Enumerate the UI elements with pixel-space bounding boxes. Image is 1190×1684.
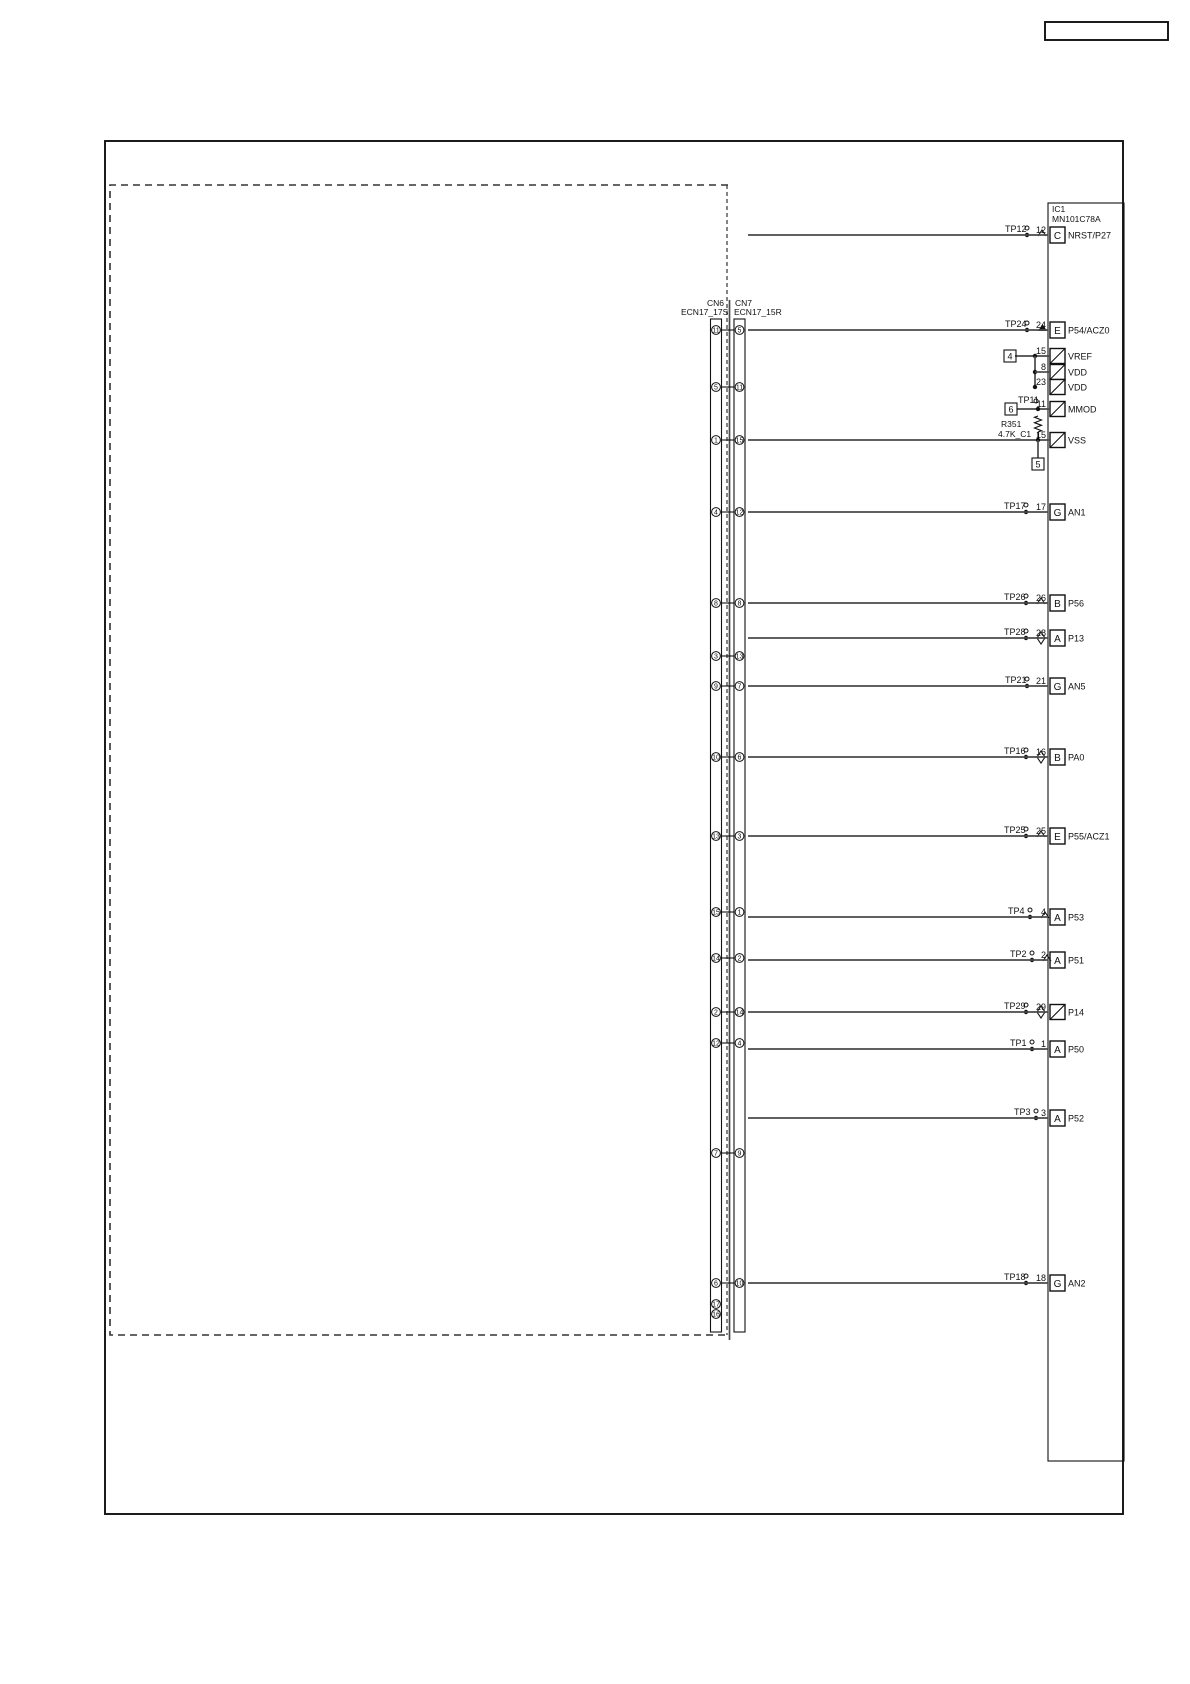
svg-text:15: 15 xyxy=(736,438,744,445)
svg-text:R351: R351 xyxy=(1001,419,1022,429)
svg-text:G: G xyxy=(1054,1279,1062,1290)
test point TP21 xyxy=(1025,677,1029,681)
wire VDD8 stub xyxy=(1034,356,1036,387)
svg-text:13: 13 xyxy=(712,834,720,841)
svg-text:TP3: TP3 xyxy=(1014,1107,1031,1117)
svg-text:21: 21 xyxy=(1036,676,1046,686)
IC1 pin 17 AN1 xyxy=(1050,504,1065,520)
CN6 pin 14 / CN7 pin 2 xyxy=(712,954,721,963)
IC1 pin 3 P52 xyxy=(1050,1110,1065,1126)
svg-text:A: A xyxy=(1054,1045,1061,1056)
title block box top right xyxy=(1045,22,1168,40)
CN6 pin 9 / CN7 pin 7 xyxy=(712,682,721,691)
svg-text:P52: P52 xyxy=(1068,1114,1084,1124)
svg-text:TP4: TP4 xyxy=(1008,906,1025,916)
connector CN6 ECN17-17S xyxy=(711,319,722,1332)
svg-text:3: 3 xyxy=(738,834,742,841)
wire harness between CN6 CN7 xyxy=(729,300,731,1340)
svg-text:13: 13 xyxy=(736,654,744,661)
svg-text:A: A xyxy=(1054,634,1061,645)
svg-text:4.7K_C1: 4.7K_C1 xyxy=(998,429,1031,439)
square ref 6 xyxy=(1005,403,1017,415)
IC1 pin 29 P14 xyxy=(1050,1005,1065,1020)
svg-text:P14: P14 xyxy=(1068,1008,1084,1018)
inner dashed boundary xyxy=(110,185,728,1335)
svg-text:8: 8 xyxy=(1041,362,1046,372)
svg-text:AN1: AN1 xyxy=(1068,508,1086,518)
IC1 pin 24 P54/ACZ0 xyxy=(1050,322,1065,338)
svg-text:P13: P13 xyxy=(1068,634,1084,644)
svg-text:8: 8 xyxy=(738,601,742,608)
test point TP29 xyxy=(1024,1003,1028,1007)
wire MMOD row xyxy=(1017,408,1050,410)
svg-text:4: 4 xyxy=(714,510,718,517)
test point TP3 xyxy=(1034,1109,1038,1113)
CN6 pin 5 / CN7 pin 11 xyxy=(712,383,721,392)
square ref 5 xyxy=(1037,440,1039,458)
svg-text:P54/ACZ0: P54/ACZ0 xyxy=(1068,326,1110,336)
svg-text:5: 5 xyxy=(1035,460,1040,470)
IC1 pin 15 VREF xyxy=(1050,349,1065,364)
IC1 pin 25 P55/ACZ1 xyxy=(1050,828,1065,844)
svg-text:MMOD: MMOD xyxy=(1068,405,1097,415)
svg-text:TP24: TP24 xyxy=(1005,319,1027,329)
svg-text:E: E xyxy=(1054,326,1061,337)
test point TP12 xyxy=(1025,226,1029,230)
svg-text:TP1: TP1 xyxy=(1010,1038,1027,1048)
CN6 pin 3 / CN7 pin 13 xyxy=(712,652,721,661)
svg-text:AN2: AN2 xyxy=(1068,1279,1086,1289)
CN6 pin 15 / CN7 pin 1 xyxy=(712,908,721,917)
svg-text:6: 6 xyxy=(714,1281,718,1288)
test point TP16 xyxy=(1024,748,1028,752)
svg-text:3: 3 xyxy=(1041,1108,1046,1118)
svg-text:4: 4 xyxy=(1007,352,1012,362)
svg-text:TP11: TP11 xyxy=(1018,395,1039,405)
test point TP17 xyxy=(1024,503,1028,507)
svg-text:NRST/P27: NRST/P27 xyxy=(1068,231,1111,241)
CN6 pin 1 / CN7 pin 15 xyxy=(712,436,721,445)
svg-text:5: 5 xyxy=(738,328,742,335)
svg-text:15: 15 xyxy=(1036,346,1046,356)
svg-text:E: E xyxy=(1054,832,1061,843)
svg-text:7: 7 xyxy=(738,684,742,691)
svg-text:11: 11 xyxy=(736,385,743,392)
svg-text:17: 17 xyxy=(1036,502,1046,512)
svg-text:7: 7 xyxy=(714,1151,718,1158)
CN6 pin 4 / CN7 pin 12 xyxy=(712,508,721,517)
test point TP2 xyxy=(1030,951,1034,955)
svg-text:MN101C78A: MN101C78A xyxy=(1052,214,1101,224)
IC1 pin 2 P51 xyxy=(1050,952,1065,968)
svg-text:P50: P50 xyxy=(1068,1045,1084,1055)
svg-text:IC1: IC1 xyxy=(1052,204,1066,214)
test point TP28 xyxy=(1024,629,1028,633)
svg-text:VSS: VSS xyxy=(1068,436,1086,446)
wire VREF row xyxy=(1015,355,1050,357)
svg-text:VDD: VDD xyxy=(1068,383,1088,393)
svg-text:VREF: VREF xyxy=(1068,352,1093,362)
svg-text:P55/ACZ1: P55/ACZ1 xyxy=(1068,832,1110,842)
CN6 pin 16 xyxy=(712,1310,721,1319)
CN6 pin 8 / CN7 pin 8 xyxy=(712,599,721,608)
svg-text:6: 6 xyxy=(1008,405,1013,415)
svg-text:1: 1 xyxy=(738,910,742,917)
svg-text:A: A xyxy=(1054,1114,1061,1125)
IC1 pin 23 VDD xyxy=(1050,380,1065,395)
CN6 pin 12 / CN7 pin 4 xyxy=(712,1039,721,1048)
svg-text:VDD: VDD xyxy=(1068,368,1088,378)
CN6 pin 7 / CN7 pin 9 xyxy=(712,1149,721,1158)
CN6 pin 6 / CN7 pin 10 xyxy=(712,1279,721,1288)
wire rows CN7 to IC1 xyxy=(748,234,1048,236)
svg-text:A: A xyxy=(1054,913,1061,924)
svg-text:6: 6 xyxy=(738,755,742,762)
svg-text:P51: P51 xyxy=(1068,956,1084,966)
svg-text:9: 9 xyxy=(714,684,718,691)
svg-text:TP29: TP29 xyxy=(1004,1001,1026,1011)
svg-text:10: 10 xyxy=(736,1281,744,1288)
svg-text:TP18: TP18 xyxy=(1004,1272,1026,1282)
svg-text:G: G xyxy=(1054,682,1062,693)
svg-text:TP17: TP17 xyxy=(1004,501,1026,511)
svg-text:2: 2 xyxy=(714,1010,718,1017)
svg-text:14: 14 xyxy=(712,956,720,963)
test point TP24 xyxy=(1025,321,1029,325)
IC1 pin 4 P53 xyxy=(1050,909,1065,925)
svg-text:P56: P56 xyxy=(1068,599,1084,609)
svg-text:5: 5 xyxy=(714,385,718,392)
IC1 pin 12 NRST/P27 xyxy=(1050,227,1065,243)
svg-text:15: 15 xyxy=(712,910,720,917)
test point TP1 xyxy=(1030,1040,1034,1044)
svg-text:14: 14 xyxy=(736,1010,744,1017)
svg-text:TP28: TP28 xyxy=(1004,627,1026,637)
svg-text:18: 18 xyxy=(1036,1273,1046,1283)
svg-text:8: 8 xyxy=(714,601,718,608)
IC1 pin 28 P13 xyxy=(1050,630,1065,646)
svg-text:4: 4 xyxy=(738,1041,742,1048)
IC1 pin 26 P56 xyxy=(1050,595,1065,611)
frame: outer border xyxy=(105,141,1123,1514)
IC1 pin 1 P50 xyxy=(1050,1041,1065,1057)
IC1 pin 11 MMOD xyxy=(1050,402,1065,417)
test point TP26 xyxy=(1024,594,1028,598)
resistor R351 4.7K xyxy=(1035,416,1042,432)
CN6 pin 11 / CN7 pin 5 xyxy=(712,326,721,335)
svg-text:ECN17_17S: ECN17_17S xyxy=(681,307,729,317)
svg-text:B: B xyxy=(1054,599,1061,610)
svg-text:TP25: TP25 xyxy=(1004,825,1026,835)
test point TP4 xyxy=(1028,908,1032,912)
connector CN7 ECN17-15R xyxy=(734,319,745,1332)
test point TP18 xyxy=(1024,1274,1028,1278)
svg-text:TP12: TP12 xyxy=(1005,224,1027,234)
svg-text:A: A xyxy=(1054,956,1061,967)
svg-text:2: 2 xyxy=(738,956,742,963)
svg-text:B: B xyxy=(1054,753,1061,764)
svg-text:11: 11 xyxy=(712,328,719,335)
IC1 pin 21 AN5 xyxy=(1050,678,1065,694)
CN6 pin 10 / CN7 pin 6 xyxy=(712,753,721,762)
svg-text:C: C xyxy=(1054,231,1061,242)
svg-text:9: 9 xyxy=(738,1151,742,1158)
svg-text:TP26: TP26 xyxy=(1004,592,1026,602)
svg-text:23: 23 xyxy=(1036,377,1046,387)
svg-text:AN5: AN5 xyxy=(1068,682,1086,692)
svg-text:TP16: TP16 xyxy=(1004,746,1026,756)
svg-text:3: 3 xyxy=(714,654,718,661)
svg-text:12: 12 xyxy=(712,1041,720,1048)
svg-text:1: 1 xyxy=(1041,1039,1046,1049)
IC1 pin 8 VDD xyxy=(1050,365,1065,380)
svg-text:17: 17 xyxy=(712,1302,720,1309)
svg-text:12: 12 xyxy=(736,510,744,517)
svg-text:P53: P53 xyxy=(1068,913,1084,923)
IC1 pin 16 PA0 xyxy=(1050,749,1065,765)
test point TP25 xyxy=(1024,827,1028,831)
svg-text:ECN17_15R: ECN17_15R xyxy=(734,307,782,317)
svg-text:1: 1 xyxy=(714,438,718,445)
IC U1 MN101C78A outline xyxy=(1048,203,1124,1461)
square ref 4 xyxy=(1004,350,1016,362)
IC1 pin 15 VSS xyxy=(1050,433,1065,448)
svg-text:10: 10 xyxy=(712,755,720,762)
svg-text:TP21: TP21 xyxy=(1005,675,1027,685)
svg-text:PA0: PA0 xyxy=(1068,753,1084,763)
CN6 pin 17 xyxy=(712,1300,721,1309)
wire VSS row xyxy=(748,439,1050,441)
CN6 pin 13 / CN7 pin 3 xyxy=(712,832,721,841)
IC1 pin 18 AN2 xyxy=(1050,1275,1065,1291)
svg-text:16: 16 xyxy=(712,1312,720,1319)
svg-text:G: G xyxy=(1054,508,1062,519)
svg-text:TP2: TP2 xyxy=(1010,949,1027,959)
CN6 pin 2 / CN7 pin 14 xyxy=(712,1008,721,1017)
